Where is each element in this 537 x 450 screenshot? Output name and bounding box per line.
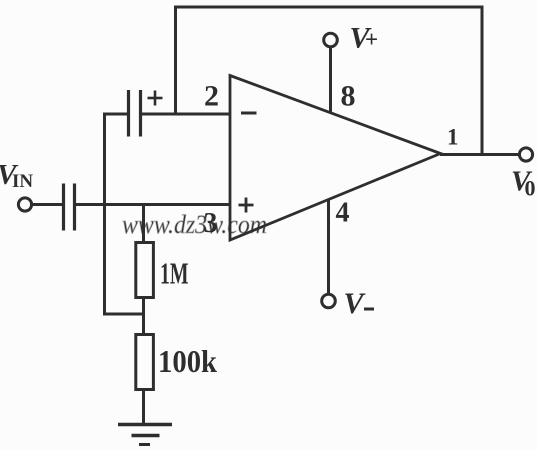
label V+ (350, 22, 379, 55)
svg-text:IN: IN (12, 171, 33, 192)
svg-text:4: 4 (336, 198, 350, 229)
svg-text:1M: 1M (160, 256, 189, 291)
wire: C2 right lead to pin 2 (142, 113, 230, 116)
svg-text:100k: 100k (158, 343, 217, 379)
wire: 1M to 100k (142, 297, 145, 335)
terminal: VIN input (18, 198, 31, 211)
terminal V- (322, 294, 336, 308)
svg-text:1: 1 (447, 125, 459, 150)
wire: pin 8 to V+ (329, 47, 332, 114)
ground (118, 425, 172, 445)
label V0 (511, 166, 536, 201)
svg-text:0: 0 (525, 176, 536, 201)
capacitor C2 (bootstrap, polarized) (129, 90, 163, 137)
wire: feedback right vertical (481, 6, 484, 157)
wire: feedback left vertical (174, 6, 177, 116)
terminal V0 output (519, 148, 532, 161)
capacitor C1 (input) (64, 184, 75, 231)
wire: top feedback horizontal (174, 6, 484, 9)
svg-text:3: 3 (204, 208, 218, 239)
label V- (344, 287, 375, 320)
op-amp inverting input minus (241, 112, 257, 115)
wire: 100k to ground (142, 389, 145, 424)
wire: output pin 1 to terminal (440, 153, 520, 156)
wire: pin 4 to V- (327, 199, 330, 295)
wire: node A stub down to 1M (142, 203, 145, 244)
svg-text:8: 8 (341, 80, 356, 113)
op-amp non-inverting input plus (239, 198, 254, 213)
svg-text:V: V (344, 287, 367, 320)
wire: C2 left lead (103, 113, 127, 116)
resistor 100k (136, 335, 154, 390)
wire: left branch down to 1M/100k junction (105, 113, 144, 315)
op-amp U1 (230, 76, 441, 241)
resistor 1M (136, 243, 154, 298)
terminal V+ (324, 33, 338, 47)
label VIN (0, 159, 33, 192)
svg-text:+: + (365, 27, 378, 52)
wire: input to C1 (32, 203, 64, 206)
svg-text:2: 2 (204, 80, 219, 113)
wire: C1 to pin 3 (75, 203, 230, 206)
